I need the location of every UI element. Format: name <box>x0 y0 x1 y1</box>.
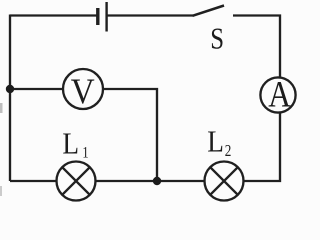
battery cell short plate <box>96 8 99 25</box>
lamp L2 cross <box>210 167 238 195</box>
svg-text:V: V <box>71 72 95 112</box>
wire junction to L1 <box>96 180 157 182</box>
wire left junction to voltmeter <box>10 88 64 90</box>
svg-text:L: L <box>62 127 79 161</box>
wire top-left segment <box>10 14 97 16</box>
svg-text:L: L <box>207 125 224 159</box>
lamp L1 circle <box>57 162 96 201</box>
wire left vertical <box>9 15 11 182</box>
junction node bottom <box>153 177 161 185</box>
wire switch to top-right corner and right vertical upper <box>233 16 280 78</box>
wire voltmeter to corner and down to bottom junction <box>103 89 157 181</box>
svg-text:A: A <box>268 74 291 115</box>
wire battery to switch <box>107 14 193 16</box>
junction node left <box>6 85 14 93</box>
svg-text:1: 1 <box>82 144 88 162</box>
wire ammeter to bottom-right corner <box>244 113 280 182</box>
switch S blade <box>193 6 225 16</box>
lamp L2 circle <box>205 162 244 201</box>
voltmeter V circle <box>63 69 103 109</box>
battery cell long plate <box>105 2 107 32</box>
svg-text:S: S <box>210 22 224 56</box>
wire L1 to bottom-left corner <box>10 180 57 182</box>
wire L2 to junction <box>157 180 205 182</box>
svg-text:2: 2 <box>225 143 232 161</box>
lamp L1 cross <box>62 167 90 195</box>
ammeter A circle <box>260 77 295 112</box>
